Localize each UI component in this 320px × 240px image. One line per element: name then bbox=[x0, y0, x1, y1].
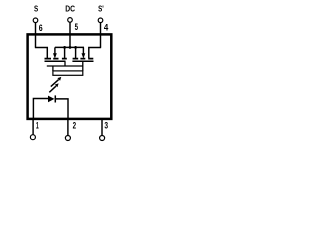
terminal pin 2 bbox=[65, 136, 70, 141]
wire Q1 gate lead bbox=[64, 61, 66, 66]
terminal pin 6 bbox=[33, 18, 38, 23]
svg-text:S': S' bbox=[98, 4, 104, 14]
light arrow 1 bbox=[51, 80, 59, 87]
svg-text:3: 3 bbox=[104, 120, 108, 130]
transistor Q2 drain leg bbox=[75, 47, 77, 58]
LED D1 triangle bbox=[48, 96, 54, 103]
light arrow 2 bbox=[49, 86, 56, 92]
svg-text:4: 4 bbox=[104, 23, 108, 33]
pin 5 wire bbox=[69, 22, 71, 47]
transistor Q2 channel segments bbox=[73, 58, 94, 60]
terminal pin 1 bbox=[30, 135, 35, 140]
terminal pin 5 bbox=[68, 18, 73, 23]
wire pin1 lead up and LED anode bbox=[33, 99, 48, 119]
svg-text:6: 6 bbox=[39, 23, 43, 33]
svg-text:S: S bbox=[34, 4, 39, 14]
wire Q2 source to pin4 elbow bbox=[89, 48, 101, 59]
pin 3 wire bbox=[101, 119, 103, 135]
pin 6 wire bbox=[35, 23, 37, 48]
pin 4 wire bbox=[100, 23, 102, 48]
pin 2 wire bbox=[67, 119, 69, 135]
wire pin6 elbow to Q1 source bbox=[35, 48, 47, 59]
transistor Q1 channel segments bbox=[45, 58, 67, 60]
wire Q2 gate lead bbox=[82, 61, 84, 71]
svg-text:5: 5 bbox=[75, 22, 78, 32]
wire gate bus drop bbox=[52, 66, 54, 71]
wire gate bus bbox=[47, 65, 83, 67]
terminal pin 4 bbox=[98, 18, 103, 23]
svg-text:1: 1 bbox=[36, 120, 39, 130]
terminal pin 3 bbox=[100, 136, 105, 141]
LED D1 cathode bar bbox=[54, 95, 56, 102]
wire LED cathode to pin2 bbox=[55, 99, 68, 119]
transistor Q1 body arrow bbox=[54, 47, 56, 53]
package outline box bbox=[28, 34, 112, 119]
transistor Q2 body arrow bbox=[82, 47, 84, 53]
transistor Q1 drain leg bbox=[64, 47, 66, 58]
junction dot C bbox=[74, 46, 77, 49]
pin 1 wire bbox=[32, 119, 34, 135]
transistor Q2 gate bar bbox=[72, 60, 93, 62]
svg-text:DC: DC bbox=[65, 4, 75, 14]
junction dot B bbox=[69, 46, 72, 49]
photodetector block U1 bbox=[53, 71, 83, 75]
wire common drain rail bbox=[55, 46, 84, 48]
transistor Q1 gate bar bbox=[45, 60, 66, 62]
svg-text:2: 2 bbox=[73, 121, 77, 131]
junction dot A bbox=[63, 46, 66, 49]
